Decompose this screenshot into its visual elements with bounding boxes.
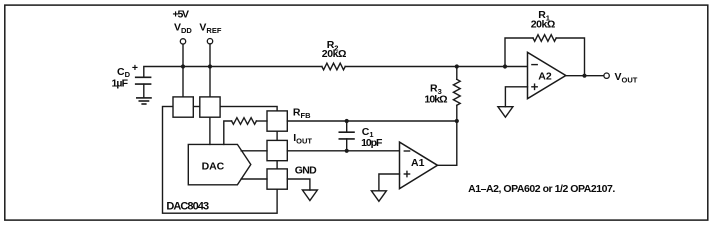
svg-text:10pF: 10pF bbox=[361, 137, 383, 149]
svg-text:A2: A2 bbox=[538, 70, 552, 82]
node RFB/R3/A1-output junction bbox=[455, 119, 459, 123]
ground (triangle) at A2 + input bbox=[498, 107, 513, 118]
wire A1 output up to RFB node bbox=[438, 121, 457, 165]
svg-text:DAC8043: DAC8043 bbox=[166, 200, 209, 212]
resistor R3 bbox=[424, 67, 460, 122]
op-amp A2 bbox=[528, 52, 566, 98]
resistor R2 bbox=[322, 63, 345, 70]
wire main rail left segment bbox=[144, 67, 322, 78]
pin VREF square bbox=[200, 97, 220, 117]
pin VDD square bbox=[173, 97, 193, 117]
node R3 top junction bbox=[455, 64, 459, 68]
svg-text:IOUT: IOUT bbox=[293, 132, 312, 145]
wire R1 to A2 output bbox=[556, 38, 584, 76]
DAC core pentagon bbox=[188, 144, 251, 184]
ground (triangle) at A1 + input bbox=[371, 191, 386, 202]
wire A2 output bbox=[566, 75, 604, 77]
resistor internal RFB zigzag bbox=[232, 118, 257, 125]
ground (triangle) at DAC GND pin bbox=[302, 190, 317, 201]
node C1 bottom junction bbox=[345, 149, 349, 153]
svg-text:VOUT: VOUT bbox=[615, 71, 638, 85]
node VDD junction bbox=[181, 64, 185, 68]
DAC8043 box bbox=[163, 107, 278, 214]
node VREF junction bbox=[208, 64, 212, 68]
svg-text:GND: GND bbox=[295, 164, 317, 176]
VDD terminal circle bbox=[180, 39, 185, 44]
svg-text:DAC: DAC bbox=[202, 161, 225, 173]
wire DAC core to IOUT pin bbox=[241, 150, 267, 152]
op-amp A1 bbox=[400, 142, 438, 189]
wire internal feedback resistor left drop bbox=[224, 121, 232, 144]
node A2 feedback tap junction bbox=[503, 64, 507, 68]
svg-text:20kΩ: 20kΩ bbox=[531, 18, 556, 30]
pin GND square bbox=[267, 169, 287, 189]
ground (3-bar) below CD bbox=[137, 98, 151, 104]
svg-text:VDD: VDD bbox=[174, 22, 192, 36]
svg-text:20kΩ: 20kΩ bbox=[322, 48, 347, 60]
VOUT terminal circle bbox=[604, 73, 609, 78]
node A2 output feedback junction bbox=[582, 74, 586, 78]
pin IOUT square bbox=[267, 140, 287, 160]
svg-text:RFB: RFB bbox=[293, 107, 311, 120]
svg-text:+: + bbox=[132, 62, 138, 74]
svg-text:A1–A2, OPA602 or 1/2 OPA2107.: A1–A2, OPA602 or 1/2 OPA2107. bbox=[468, 183, 615, 195]
svg-text:1µF: 1µF bbox=[112, 77, 129, 89]
svg-text:+5V: +5V bbox=[173, 9, 190, 21]
wire A2 noninverting input to ground bbox=[505, 87, 527, 107]
wire internal resistor to RFB pin bbox=[256, 120, 267, 122]
wire VREF vertical bbox=[209, 44, 211, 97]
VREF terminal circle bbox=[207, 39, 212, 44]
svg-text:VREF: VREF bbox=[199, 22, 221, 36]
wire IOUT pin to A1 inverting input bbox=[287, 150, 399, 152]
wire A2 feedback loop bbox=[505, 38, 533, 67]
node C1 top junction bbox=[345, 119, 349, 123]
pin RFB square bbox=[267, 111, 287, 131]
wire VREF internal to DAC core bbox=[209, 117, 211, 144]
wire GND pin to ground bbox=[287, 179, 310, 190]
wire VDD vertical bbox=[182, 44, 184, 97]
capacitor C1 bbox=[339, 121, 383, 151]
wire DAC core to GND pin bbox=[241, 178, 267, 180]
svg-text:A1: A1 bbox=[411, 157, 425, 169]
resistor R1 bbox=[533, 35, 556, 42]
wire main rail right segment bbox=[345, 66, 527, 68]
wire A1 noninverting input to ground bbox=[379, 174, 400, 191]
svg-text:10kΩ: 10kΩ bbox=[424, 93, 447, 105]
wire RFB pin to R3 node bbox=[287, 120, 457, 122]
capacitor CD bbox=[112, 62, 151, 97]
